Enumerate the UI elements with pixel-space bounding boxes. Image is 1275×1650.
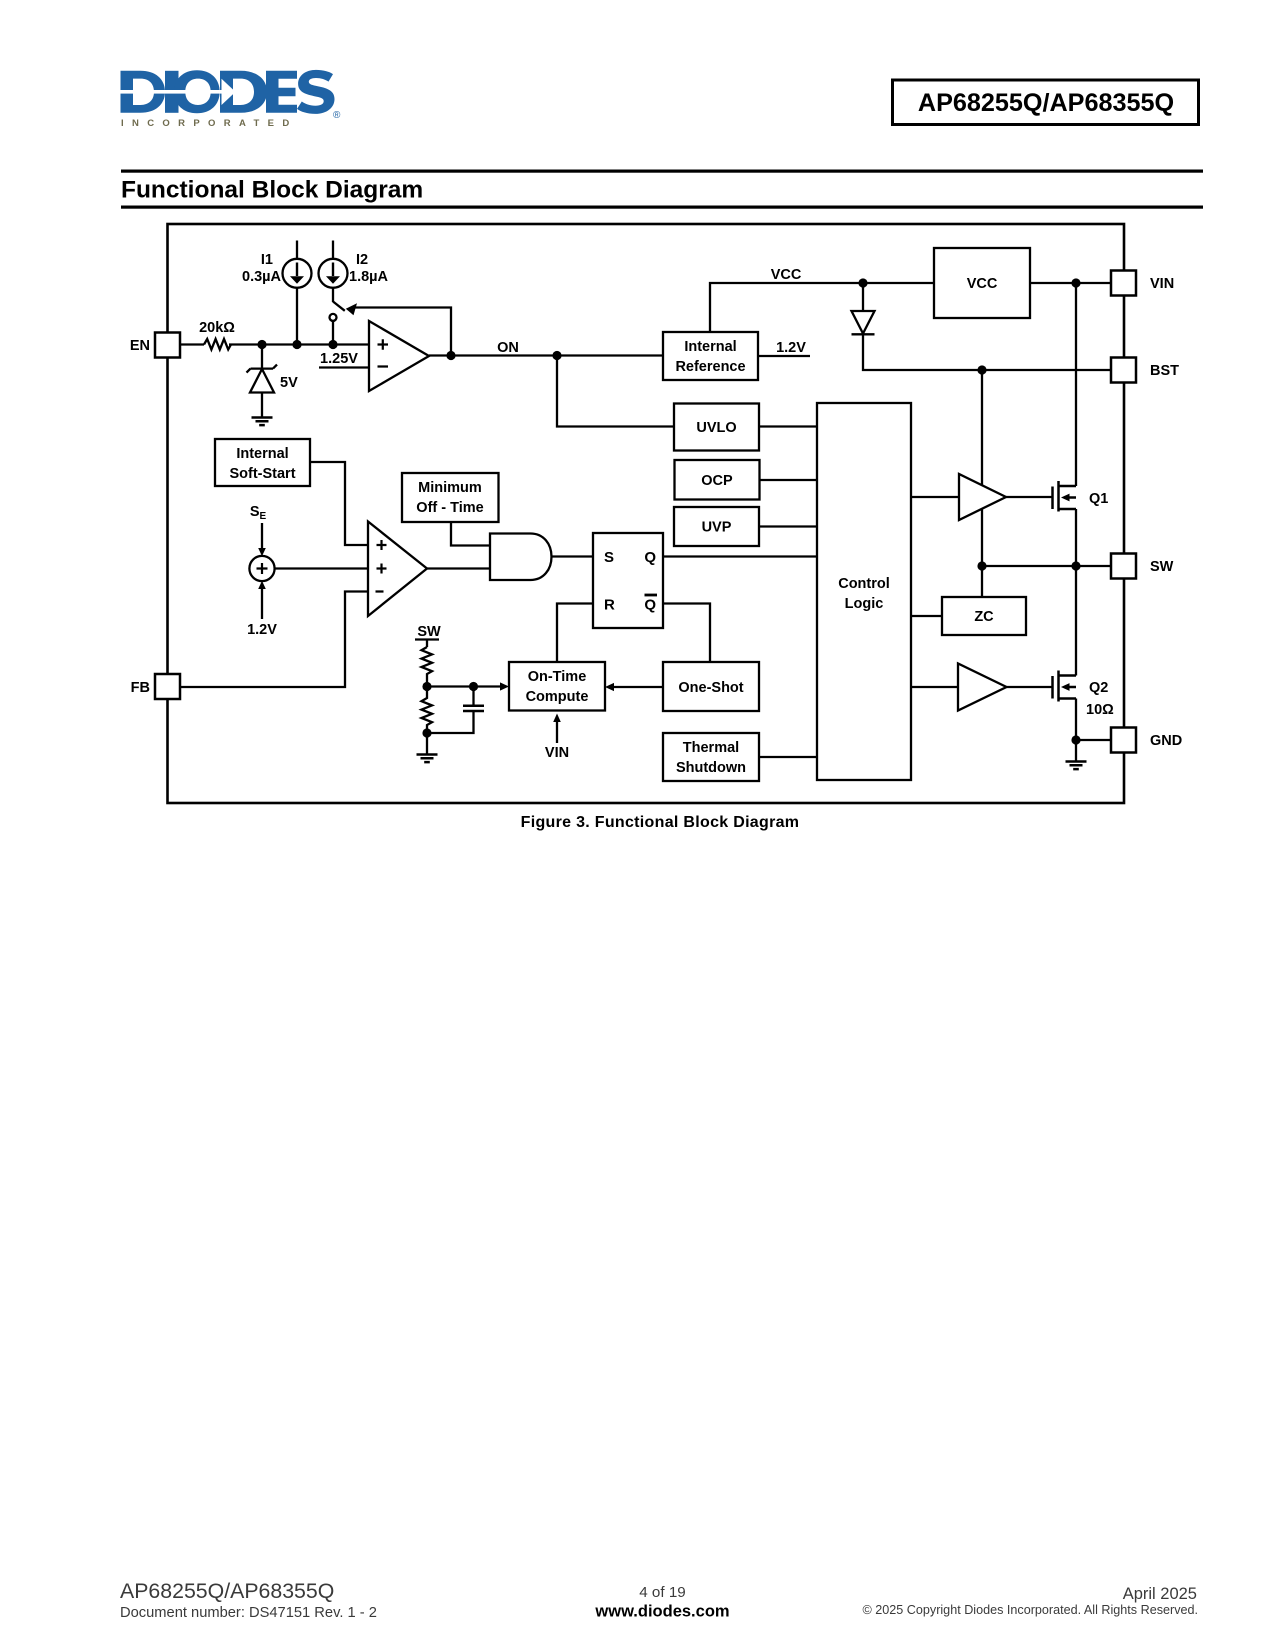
node VCC dot bbox=[858, 278, 867, 287]
wire SW to ZC bbox=[981, 566, 983, 597]
wire diode anode bbox=[862, 283, 864, 311]
node divider low dot bbox=[422, 728, 431, 737]
wire 1.2V stub bbox=[758, 355, 810, 357]
letter D2 bbox=[220, 71, 267, 113]
on-time compute box bbox=[509, 662, 605, 711]
driver buffer 1 bbox=[959, 474, 1006, 520]
svg-text:Q: Q bbox=[644, 549, 656, 566]
svg-text:0.3µA: 0.3µA bbox=[242, 269, 282, 285]
one-shot box bbox=[663, 662, 759, 711]
arrow 1.2V into summing bbox=[261, 586, 263, 619]
ground below divider bbox=[417, 755, 438, 763]
node GND dot bbox=[1071, 735, 1080, 744]
internal reference box bbox=[663, 332, 758, 380]
node VIN dot bbox=[1071, 278, 1080, 287]
zener diode 5V bbox=[247, 365, 278, 393]
node BST dot bbox=[977, 365, 986, 374]
thermal shutdown box bbox=[663, 733, 759, 781]
svg-text:VIN: VIN bbox=[1150, 276, 1174, 292]
svg-text:Thermal: Thermal bbox=[683, 740, 739, 756]
VCC box bbox=[934, 248, 1030, 318]
svg-text:© 2025 Copyright Diodes Incorp: © 2025 Copyright Diodes Incorporated. Al… bbox=[863, 1603, 1199, 1617]
SW divider label wire bbox=[415, 638, 439, 640]
svg-text:I2: I2 bbox=[356, 252, 368, 268]
svg-text:I1: I1 bbox=[261, 252, 273, 268]
wire soft-start to error amp bbox=[310, 462, 368, 545]
svg-text:Q: Q bbox=[644, 597, 656, 614]
wire I1 to node bbox=[296, 288, 298, 345]
wire driver1 to SW node bbox=[981, 509, 983, 567]
section title rule top bbox=[121, 170, 1203, 173]
ground below Q2 bbox=[1066, 762, 1087, 770]
wire switch node bbox=[332, 321, 334, 344]
svg-text:VCC: VCC bbox=[967, 276, 998, 292]
OCP box bbox=[675, 460, 760, 500]
svg-text:VCC: VCC bbox=[771, 267, 802, 283]
node comparator output dot bbox=[446, 351, 455, 360]
svg-text:OCP: OCP bbox=[701, 473, 733, 489]
wire R input bbox=[557, 604, 593, 663]
pin FB bbox=[155, 674, 180, 699]
internal soft-start box bbox=[215, 439, 310, 486]
switch contact bbox=[330, 314, 337, 321]
wire one-shot to on-time bbox=[614, 686, 663, 688]
svg-text:SE: SE bbox=[250, 504, 267, 522]
svg-text:1.8µA: 1.8µA bbox=[349, 269, 389, 285]
pin SW bbox=[1111, 554, 1136, 579]
svg-text:GND: GND bbox=[1150, 733, 1182, 749]
wire AND to latch S bbox=[552, 555, 594, 557]
current source I1 stub bbox=[296, 241, 298, 259]
svg-text:VIN: VIN bbox=[545, 745, 569, 761]
wire zener bbox=[261, 345, 263, 418]
node divider mid dot bbox=[422, 682, 431, 691]
wire ON to UVLO bbox=[557, 356, 674, 427]
wire OCP to control logic bbox=[760, 479, 818, 481]
wire SW rail bbox=[982, 565, 1111, 567]
capacitor wire top bbox=[472, 687, 474, 706]
SR latch bbox=[593, 533, 663, 628]
letter I bbox=[165, 71, 179, 113]
svg-text:SW: SW bbox=[1150, 559, 1174, 575]
svg-text:AP68255Q/AP68355Q: AP68255Q/AP68355Q bbox=[918, 89, 1174, 117]
svg-text:Q1: Q1 bbox=[1089, 491, 1108, 507]
svg-text:SW: SW bbox=[417, 624, 441, 640]
comparator U1 bbox=[369, 321, 429, 391]
control logic box bbox=[817, 403, 911, 780]
svg-text:1.25V: 1.25V bbox=[320, 351, 358, 367]
wire control logic to driver1 bbox=[911, 496, 959, 498]
wire driver1 to Q1 gate bbox=[1006, 496, 1052, 498]
capacitor bbox=[463, 706, 484, 711]
arrow VIN into on-time bbox=[556, 719, 558, 743]
arrowhead into on-time bbox=[500, 682, 509, 690]
wire Q1 drain to VIN bbox=[1075, 283, 1077, 486]
svg-text:April 2025: April 2025 bbox=[1123, 1585, 1197, 1603]
wire control logic to driver2 bbox=[911, 686, 958, 688]
node C dot bbox=[328, 340, 337, 349]
wire thermal to control logic bbox=[759, 756, 817, 758]
wire VCC to VIN bbox=[1030, 282, 1111, 284]
svg-text:1.2V: 1.2V bbox=[776, 340, 806, 356]
AND gate bbox=[490, 534, 552, 581]
wire UVLO to control logic bbox=[759, 425, 817, 427]
error amp U2 bbox=[368, 522, 427, 617]
transistor Q2 bbox=[1053, 671, 1077, 702]
wire divider to ground bbox=[426, 733, 428, 755]
wire min off-time to AND bbox=[451, 522, 490, 546]
pin EN bbox=[155, 333, 180, 358]
svg-text:ON: ON bbox=[497, 340, 519, 356]
svg-text:1.2V: 1.2V bbox=[247, 622, 277, 638]
diode bootstrap bbox=[852, 311, 875, 334]
wire Q2 to ground symbol bbox=[1075, 740, 1077, 762]
svg-text:4 of 19: 4 of 19 bbox=[639, 1584, 685, 1601]
resistor divider top bbox=[422, 647, 433, 687]
svg-text:Compute: Compute bbox=[526, 689, 589, 705]
svg-text:UVP: UVP bbox=[702, 520, 732, 536]
wire diode to BST bbox=[863, 334, 1111, 370]
feedback arrowhead bbox=[346, 303, 357, 315]
svg-text:Off - Time: Off - Time bbox=[416, 500, 483, 516]
wire summing to error amp bbox=[275, 567, 368, 569]
wire Q1 source to SW bbox=[1075, 509, 1077, 566]
svg-text:Internal: Internal bbox=[684, 339, 736, 355]
section title rule bottom bbox=[121, 206, 1203, 209]
svg-text:5V: 5V bbox=[280, 375, 298, 391]
svg-text:Reference: Reference bbox=[675, 359, 745, 375]
svg-text:INCORPORATED: INCORPORATED bbox=[121, 118, 298, 129]
part number box bbox=[893, 80, 1199, 125]
current source I2 bbox=[319, 259, 348, 288]
letter S bbox=[297, 70, 335, 114]
node SW dot right bbox=[1071, 561, 1080, 570]
svg-text:R: R bbox=[604, 597, 615, 614]
svg-text:UVLO: UVLO bbox=[696, 420, 736, 436]
svg-text:10Ω: 10Ω bbox=[1086, 702, 1114, 718]
capacitor wire bottom bbox=[427, 711, 474, 733]
wire latch Q to control logic bbox=[663, 555, 817, 557]
svg-text:Functional Block Diagram: Functional Block Diagram bbox=[121, 177, 423, 204]
pin VIN bbox=[1111, 271, 1136, 296]
diagram outer border bbox=[168, 224, 1125, 803]
latch Qbar overbar bbox=[645, 594, 658, 597]
wire UVP to control logic bbox=[759, 525, 817, 527]
current source I1 bbox=[283, 259, 312, 288]
svg-text:Figure 3. Functional Block Dia: Figure 3. Functional Block Diagram bbox=[521, 814, 800, 831]
wire EN to comparator bbox=[180, 343, 369, 345]
transistor Q1 bbox=[1053, 481, 1077, 512]
UVLO box bbox=[674, 404, 759, 451]
node cap dot bbox=[469, 682, 478, 691]
wire divider to on-time bbox=[427, 685, 500, 687]
ground below zener bbox=[252, 418, 273, 426]
wire control logic to ZC bbox=[911, 615, 942, 617]
resistor divider bottom bbox=[422, 687, 433, 734]
node B dot bbox=[292, 340, 301, 349]
resistor 20k bbox=[204, 339, 231, 350]
wire I2 to switch bbox=[332, 288, 334, 302]
svg-text:One-Shot: One-Shot bbox=[678, 680, 743, 696]
svg-text:On-Time: On-Time bbox=[528, 669, 587, 685]
wire Q2 drain to SW bbox=[1075, 566, 1077, 676]
svg-text:Control: Control bbox=[838, 576, 890, 592]
svg-text:FB: FB bbox=[131, 680, 150, 696]
wire BST to driver bbox=[981, 370, 983, 485]
wire SW to resistor bbox=[426, 640, 428, 648]
wire driver2 to Q2 gate bbox=[1007, 686, 1053, 688]
node A dot bbox=[257, 340, 266, 349]
svg-text:S: S bbox=[604, 549, 614, 566]
letter E bbox=[266, 71, 297, 113]
svg-text:www.diodes.com: www.diodes.com bbox=[594, 1603, 729, 1621]
minimum off-time box bbox=[402, 473, 499, 522]
node ON dot bbox=[552, 351, 561, 360]
letter O bbox=[174, 70, 219, 113]
wire Q2 source to GND bbox=[1075, 699, 1077, 741]
UVP box bbox=[674, 507, 759, 546]
feedback wire to switch bbox=[355, 308, 451, 356]
svg-text:ZC: ZC bbox=[974, 609, 994, 625]
svg-text:®: ® bbox=[333, 110, 341, 121]
wire latch Qbar to one-shot bbox=[663, 604, 710, 663]
Diodes Incorporated logo bbox=[117, 70, 341, 129]
wire FB to error amp bbox=[180, 592, 368, 688]
svg-text:Shutdown: Shutdown bbox=[676, 760, 746, 776]
svg-text:AP68255Q/AP68355Q: AP68255Q/AP68355Q bbox=[120, 1579, 334, 1603]
svg-text:20kΩ: 20kΩ bbox=[199, 320, 235, 336]
logo arrowhead bbox=[222, 79, 236, 105]
node SW dot left bbox=[977, 561, 986, 570]
arrow SE into summing bbox=[261, 523, 263, 551]
current source I2 stub bbox=[332, 241, 334, 259]
svg-text:Document number: DS47151 Rev.: Document number: DS47151 Rev. 1 - 2 bbox=[120, 1605, 377, 1621]
svg-text:Minimum: Minimum bbox=[418, 480, 482, 496]
wire error amp to AND bbox=[427, 567, 490, 569]
svg-text:Q2: Q2 bbox=[1089, 680, 1108, 696]
driver buffer 2 bbox=[958, 664, 1007, 711]
letter D1 bbox=[121, 71, 166, 113]
pin GND bbox=[1111, 728, 1136, 753]
svg-text:Internal: Internal bbox=[236, 446, 288, 462]
summing node bbox=[249, 556, 274, 581]
switch blade bbox=[333, 302, 345, 311]
svg-text:EN: EN bbox=[130, 338, 150, 354]
pin BST bbox=[1111, 358, 1136, 383]
svg-text:Soft-Start: Soft-Start bbox=[229, 466, 295, 482]
wire VCC bbox=[710, 283, 934, 332]
logo arrow stripe bbox=[117, 90, 222, 94]
wire ON bbox=[429, 354, 663, 356]
arrowhead one-shot to on-time bbox=[605, 683, 614, 691]
svg-text:BST: BST bbox=[1150, 363, 1179, 379]
wire 1.25V input bbox=[319, 366, 369, 368]
wire to GND pin bbox=[1076, 739, 1111, 741]
svg-text:Logic: Logic bbox=[845, 596, 884, 612]
ZC box bbox=[942, 597, 1026, 635]
